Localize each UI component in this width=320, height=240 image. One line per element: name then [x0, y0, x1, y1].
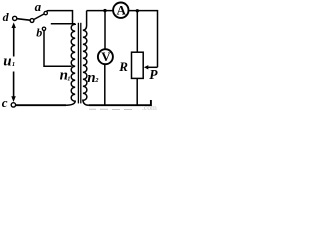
switch pivot circle [30, 19, 34, 23]
wire left upper [13, 27, 15, 57]
watermark dashes [89, 108, 132, 110]
voltmeter V [98, 49, 113, 64]
svg-text:A: A [117, 3, 127, 18]
core line left [77, 23, 79, 104]
top rail: secondary to ammeter [87, 10, 113, 12]
wire: b tap down and right to winding [44, 31, 72, 67]
core line right [80, 23, 82, 104]
wiper arrow P [148, 66, 158, 68]
svg-text:d: d [3, 10, 10, 24]
junction dot left (V tap) [103, 9, 106, 12]
svg-text:b: b [36, 26, 42, 40]
svg-text:2: 2 [94, 77, 99, 84]
bottom left rail [16, 104, 66, 106]
svg-text:R: R [118, 59, 128, 74]
wire left lower [13, 72, 15, 98]
voltage arrow down (toward c) [11, 96, 16, 102]
terminal c [11, 103, 15, 107]
secondary top lead [83, 11, 87, 31]
contact b circle [42, 27, 45, 30]
switch blade to contact a [34, 14, 44, 20]
voltmeter branch wire upper [104, 11, 106, 50]
svg-text:u: u [3, 54, 11, 70]
voltage arrow up (toward d) [12, 22, 16, 28]
bottom rail right [89, 100, 151, 105]
svg-text:a: a [35, 0, 42, 14]
resistor R rectangle [132, 52, 144, 78]
junction dot right (R tap) [136, 9, 139, 12]
R bottom wire [136, 78, 138, 105]
svg-text:1: 1 [67, 76, 70, 83]
primary winding n1 [66, 24, 75, 106]
svg-text:c: c [2, 95, 8, 110]
R top wire [136, 11, 138, 52]
wire d to switch pivot [17, 19, 30, 21]
secondary winding n2 [83, 30, 89, 105]
svg-text:V: V [101, 49, 111, 64]
voltmeter branch wire lower [104, 64, 106, 105]
top rail: ammeter to right corner [129, 11, 158, 68]
wire: a up to top rail and right to transformer [46, 11, 72, 24]
svg-text:1: 1 [12, 61, 15, 68]
svg-text:P: P [149, 67, 158, 82]
ammeter A [113, 3, 128, 18]
terminal d [13, 16, 17, 20]
contact a circle [44, 11, 47, 14]
wire: primary top lead stub [51, 23, 75, 25]
svg-text:.com: .com [142, 103, 157, 112]
